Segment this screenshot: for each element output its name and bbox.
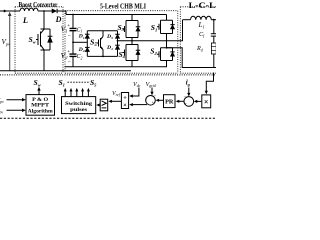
transistor S5 (102, 31, 104, 57)
svg-text:L-C-L filter: L-C-L filter (189, 1, 217, 10)
svg-text:−: − (68, 59, 71, 65)
transistor S4 (123, 45, 139, 61)
wire right leg top (166, 15, 168, 21)
svg-text:PR: PR (165, 99, 174, 106)
MLI dashed box (65, 11, 178, 73)
wire Vgrid arrow (151, 88, 153, 93)
transistor S2 (157, 48, 173, 61)
diode D1 (85, 31, 90, 35)
wire sum2 to PR arrow (178, 100, 184, 102)
wire MLI bottom bus (65, 66, 168, 68)
diode bridge top wire (87, 30, 117, 32)
wire PR to sum1 arrow (158, 99, 163, 101)
svg-text:×: × (204, 97, 209, 106)
node D3 D4 midpoint (117, 40, 119, 42)
svg-text:pulses: pulses (70, 107, 87, 113)
transistor Sw (36, 11, 50, 71)
diode D2 (85, 46, 90, 48)
multiply divide box (121, 93, 128, 109)
inductor L (20, 8, 38, 11)
svg-text:D: D (55, 15, 62, 24)
node left leg output (131, 40, 133, 42)
svg-text:Boost Converter: Boost Converter (19, 0, 59, 9)
summing node 2 (184, 97, 194, 107)
svg-text:+: + (67, 49, 70, 55)
diode antiparallel S3 (136, 21, 140, 38)
wire Sw gate arrow (38, 90, 40, 95)
wire bottom rail (0, 70, 131, 72)
diode D4 (115, 44, 120, 46)
wire left leg top (131, 15, 133, 21)
transistor S3 (123, 21, 139, 38)
capacitor C2 (70, 54, 77, 56)
wire grid sense to multiplier (206, 73, 213, 92)
node boost switch tap (43, 10, 45, 12)
summing node 1 (146, 96, 156, 106)
node right leg output (166, 47, 168, 49)
control dashed box bottom (0, 117, 216, 119)
Vpv sense arrow (9, 14, 11, 71)
wire ig arrow (188, 88, 190, 94)
wire to MLI (57, 11, 66, 15)
wire output A (118, 20, 183, 41)
wire output B (167, 48, 217, 68)
wire DC bus (66, 14, 167, 16)
wire (38, 10, 52, 12)
capacitor C1 (72, 15, 74, 55)
svg-text:−: − (68, 33, 71, 39)
svg-text:+: + (67, 23, 70, 29)
diode antiparallel Sw (48, 29, 53, 50)
wire cap midpoint to diode bridge (73, 41, 87, 43)
switching pulses box (62, 97, 96, 114)
wire PV top (0, 10, 20, 12)
svg-text:5-Level CHB MLI: 5-Level CHB MLI (100, 2, 146, 11)
node DC bus / C1 (72, 14, 74, 16)
wire right leg mid (166, 34, 168, 48)
multiplier box (202, 95, 211, 108)
diode antiparallel S1 (170, 20, 174, 33)
svg-text:Switching: Switching (65, 101, 92, 107)
node A input arrow (4, 10, 7, 13)
wire Vdc arrow (132, 88, 139, 97)
comparator box (100, 99, 108, 111)
resistor Rd (211, 43, 216, 54)
diode D3 (115, 31, 120, 35)
wire x to sum2 arrow (196, 100, 201, 102)
wire xdiv to comparator arrow (111, 100, 121, 102)
node cap midpoint (72, 41, 74, 43)
svg-text:L: L (22, 15, 28, 25)
wire Vpv input arrow (7, 99, 24, 101)
diode D (52, 8, 57, 13)
comparator symbol (102, 101, 107, 108)
svg-text:Algorithm: Algorithm (28, 108, 54, 114)
wire left leg midpoint (131, 38, 133, 45)
wire sum1 to xdiv arrow (132, 104, 147, 106)
wire Ipv input arrow (7, 109, 24, 111)
wire right leg bottom (166, 61, 168, 67)
diode antiparallel S2 (170, 48, 174, 61)
PR box (164, 95, 176, 108)
wire dashes S1 to S5 (68, 81, 91, 83)
capacitor Cf branch (211, 20, 216, 43)
svg-text:×: × (123, 102, 127, 109)
diode antiparallel S4 (136, 45, 140, 61)
boost converter dashed box (15, 7, 63, 73)
control dashed box top (0, 74, 216, 76)
transistor S1 (157, 20, 173, 33)
node L1 Cf tap (213, 19, 215, 21)
node S5 emitter (102, 56, 104, 58)
diode bridge bottom wire (87, 55, 117, 57)
wire comparator out arrow (99, 104, 100, 106)
inductor L1 (183, 19, 191, 21)
wire pulse arrows S1-S5 (65, 91, 88, 97)
wire left leg bottom (131, 61, 133, 67)
MPPT box (26, 95, 55, 116)
LCL dashed box (180, 7, 216, 73)
